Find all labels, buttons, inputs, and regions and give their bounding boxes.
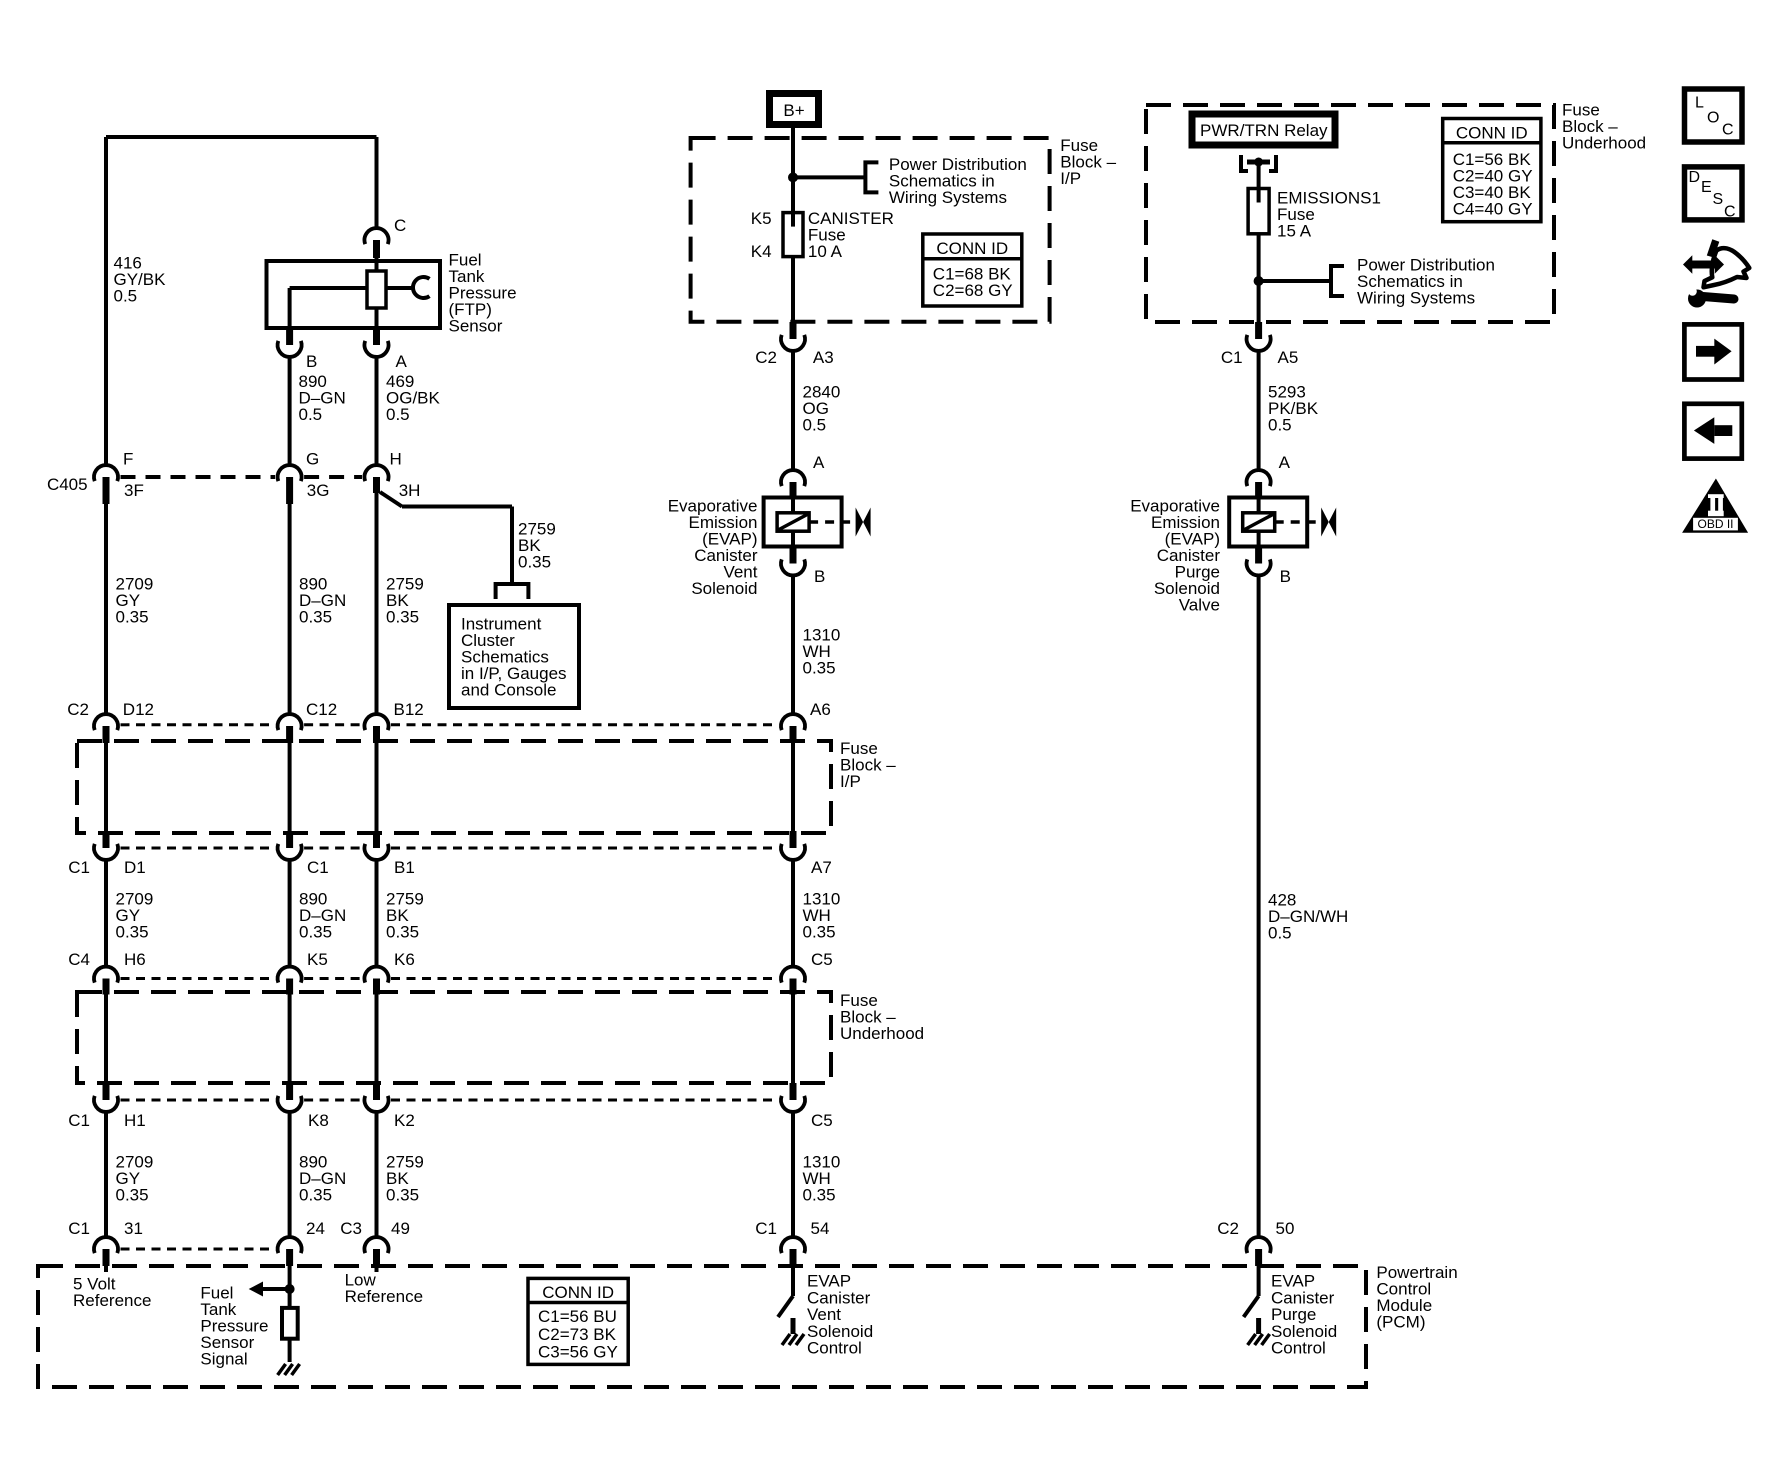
- svg-text:0.5: 0.5: [114, 287, 138, 306]
- svg-text:C1: C1: [68, 1219, 90, 1238]
- svg-text:0.5: 0.5: [386, 405, 410, 424]
- svg-text:C2: C2: [67, 700, 89, 719]
- svg-text:and Console: and Console: [461, 681, 556, 700]
- svg-text:K2: K2: [394, 1111, 415, 1130]
- svg-text:OBD II: OBD II: [1697, 517, 1733, 531]
- svg-text:D1: D1: [124, 858, 146, 877]
- svg-text:0.35: 0.35: [386, 608, 419, 627]
- svg-text:O: O: [1707, 110, 1719, 127]
- svg-text:0.35: 0.35: [386, 1186, 419, 1205]
- svg-text:C5: C5: [811, 950, 833, 969]
- svg-text:0.35: 0.35: [116, 608, 149, 627]
- svg-text:Control: Control: [1271, 1339, 1326, 1358]
- svg-text:PWR/TRN Relay: PWR/TRN Relay: [1200, 121, 1328, 140]
- svg-text:K5: K5: [307, 950, 328, 969]
- svg-text:54: 54: [811, 1219, 830, 1238]
- svg-text:B: B: [814, 567, 825, 586]
- svg-text:0.35: 0.35: [803, 1186, 836, 1205]
- svg-text:C3: C3: [340, 1219, 362, 1238]
- svg-text:C2=68 GY: C2=68 GY: [933, 281, 1013, 300]
- svg-text:C1: C1: [68, 858, 90, 877]
- svg-text:0.5: 0.5: [1268, 924, 1292, 943]
- svg-text:CONN ID: CONN ID: [1456, 124, 1528, 143]
- svg-text:C12: C12: [306, 700, 337, 719]
- svg-text:B: B: [1280, 567, 1291, 586]
- svg-text:C1=56 BU: C1=56 BU: [538, 1307, 617, 1326]
- svg-text:H6: H6: [124, 950, 146, 969]
- svg-text:15 A: 15 A: [1277, 222, 1312, 241]
- svg-text:C1: C1: [755, 1219, 777, 1238]
- svg-text:H1: H1: [124, 1111, 146, 1130]
- svg-text:C: C: [1724, 204, 1736, 221]
- svg-text:31: 31: [124, 1219, 143, 1238]
- svg-text:C: C: [394, 216, 406, 235]
- svg-text:F: F: [123, 450, 133, 469]
- svg-text:CONN ID: CONN ID: [542, 1283, 614, 1302]
- svg-text:B1: B1: [394, 858, 415, 877]
- svg-text:Wiring Systems: Wiring Systems: [889, 188, 1007, 207]
- svg-text:C1: C1: [68, 1111, 90, 1130]
- svg-text:C3=56 GY: C3=56 GY: [538, 1343, 618, 1362]
- svg-text:D: D: [1689, 169, 1701, 186]
- svg-text:0.35: 0.35: [518, 553, 551, 572]
- svg-text:C5: C5: [811, 1111, 833, 1130]
- svg-text:C2=73 BK: C2=73 BK: [538, 1325, 617, 1344]
- svg-text:CONN ID: CONN ID: [936, 239, 1008, 258]
- svg-text:Underhood: Underhood: [840, 1024, 924, 1043]
- svg-text:0.5: 0.5: [803, 416, 827, 435]
- svg-text:A: A: [813, 453, 825, 472]
- svg-text:C2: C2: [755, 348, 777, 367]
- svg-text:C4=40 GY: C4=40 GY: [1453, 199, 1533, 218]
- svg-text:K6: K6: [394, 950, 415, 969]
- svg-text:D12: D12: [123, 700, 154, 719]
- svg-text:Reference: Reference: [73, 1291, 151, 1310]
- svg-text:A: A: [1279, 453, 1291, 472]
- svg-text:C405: C405: [47, 475, 88, 494]
- svg-text:G: G: [306, 450, 319, 469]
- svg-text:49: 49: [391, 1219, 410, 1238]
- svg-text:Wiring Systems: Wiring Systems: [1357, 289, 1475, 308]
- svg-text:0.35: 0.35: [299, 923, 332, 942]
- svg-text:A3: A3: [813, 348, 834, 367]
- svg-text:0.35: 0.35: [386, 923, 419, 942]
- svg-text:0.35: 0.35: [299, 608, 332, 627]
- svg-text:A: A: [396, 352, 408, 371]
- svg-text:B12: B12: [394, 700, 424, 719]
- svg-text:0.5: 0.5: [1268, 416, 1292, 435]
- svg-text:C2: C2: [1217, 1219, 1239, 1238]
- svg-text:Solenoid: Solenoid: [691, 579, 757, 598]
- svg-text:Valve: Valve: [1179, 596, 1220, 615]
- svg-text:C: C: [1722, 122, 1734, 139]
- svg-text:Signal: Signal: [200, 1350, 247, 1369]
- svg-text:E: E: [1701, 179, 1712, 196]
- svg-text:3F: 3F: [124, 481, 144, 500]
- svg-text:A5: A5: [1278, 348, 1299, 367]
- svg-text:I/P: I/P: [1060, 169, 1081, 188]
- svg-text:0.35: 0.35: [803, 923, 836, 942]
- svg-text:B: B: [306, 352, 317, 371]
- svg-text:A6: A6: [810, 700, 831, 719]
- svg-text:0.35: 0.35: [116, 923, 149, 942]
- svg-text:C1: C1: [307, 858, 329, 877]
- svg-text:I/P: I/P: [840, 772, 861, 791]
- svg-text:Reference: Reference: [345, 1287, 423, 1306]
- svg-text:C1: C1: [1221, 348, 1243, 367]
- svg-text:3H: 3H: [399, 481, 421, 500]
- svg-text:C4: C4: [68, 950, 90, 969]
- svg-text:S: S: [1713, 191, 1724, 208]
- svg-text:Underhood: Underhood: [1562, 134, 1646, 153]
- svg-text:10 A: 10 A: [808, 242, 843, 261]
- svg-text:K5: K5: [751, 209, 772, 228]
- svg-text:Control: Control: [807, 1339, 862, 1358]
- svg-text:L: L: [1695, 95, 1704, 112]
- svg-text:K8: K8: [308, 1111, 329, 1130]
- svg-text:0.35: 0.35: [299, 1186, 332, 1205]
- svg-text:0.5: 0.5: [299, 405, 323, 424]
- svg-text:Sensor: Sensor: [449, 317, 503, 336]
- svg-text:0.35: 0.35: [803, 659, 836, 678]
- svg-text:0.35: 0.35: [116, 1186, 149, 1205]
- svg-text:B+: B+: [783, 101, 804, 120]
- svg-text:A7: A7: [811, 858, 832, 877]
- svg-text:24: 24: [306, 1219, 325, 1238]
- svg-text:K4: K4: [751, 242, 772, 261]
- svg-text:(PCM): (PCM): [1376, 1313, 1425, 1332]
- svg-text:50: 50: [1276, 1219, 1295, 1238]
- svg-text:H: H: [390, 450, 402, 469]
- svg-text:3G: 3G: [307, 481, 330, 500]
